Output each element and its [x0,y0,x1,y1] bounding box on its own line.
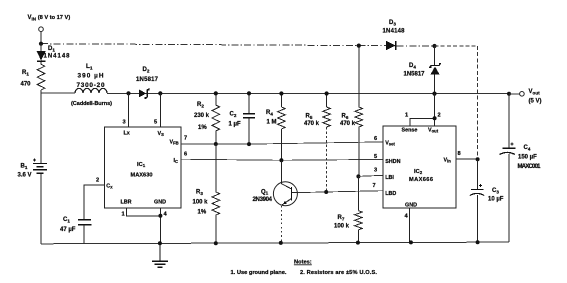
junction C3 at bus [476,240,480,244]
resistor R6 [340,46,363,177]
ground [152,243,168,267]
svg-text:R7: R7 [338,215,345,221]
svg-text:Cx: Cx [106,184,113,190]
svg-text:D3: D3 [389,20,396,26]
junction C2 top [247,91,251,95]
wire IC/SHDN line IC1 pin6 to IC2 pin5 [181,159,383,160]
svg-text:VS: VS [158,131,165,137]
junction LBR-GND [158,214,162,218]
resistor R7 [334,176,362,242]
svg-text:Vset: Vset [385,141,395,147]
svg-text:LBI: LBI [385,175,394,181]
svg-text:R3: R3 [196,190,203,196]
svg-text:R1: R1 [22,70,29,76]
junction C2 at VFB [247,142,251,146]
svg-text:2: 2 [438,113,441,119]
diode D1 [37,44,71,65]
diode D3 [383,20,406,50]
svg-text:D1: D1 [48,46,55,52]
svg-text:3: 3 [374,168,377,174]
svg-text:R5: R5 [306,114,313,120]
svg-text:MAX630: MAX630 [131,172,153,178]
svg-text:1: 1 [405,113,408,119]
svg-text:47 µF: 47 µF [60,227,76,233]
wire ground bus [41,242,509,244]
svg-text:(5 V): (5 V) [529,99,542,105]
svg-text:LBD: LBD [385,191,396,197]
svg-text:Vout: Vout [428,128,439,134]
svg-text:VFB: VFB [170,139,179,145]
svg-text:Vin: Vin [444,158,452,164]
svg-text:C3: C3 [492,188,499,194]
resistor R5 [304,94,330,192]
svg-text:5: 5 [154,120,157,126]
svg-text:IC: IC [174,158,179,164]
svg-text:7300-20: 7300-20 [77,82,105,89]
capacitor C4 [500,94,542,242]
svg-text:Q1: Q1 [261,189,269,195]
junction pin8 / C3 [476,157,480,161]
svg-text:2: 2 [96,178,99,184]
svg-text:470 k: 470 k [304,121,320,127]
svg-text:D4: D4 [409,63,416,69]
inductor L1 [71,63,112,107]
svg-text:R2: R2 [197,102,204,108]
svg-text:390 µH: 390 µH [78,73,104,80]
junction R3 at bus [214,241,218,245]
junction R4/Q1 base at SHDN line [279,158,283,162]
svg-text:150 µF: 150 µF [518,155,537,161]
junction node A [432,44,436,48]
capacitor C3 [470,159,504,242]
junction Q1 emitter at bus [279,241,283,245]
resistor R3 [193,144,220,243]
svg-text:5: 5 [374,154,377,160]
svg-text:MAXC001: MAXC001 [518,164,542,170]
svg-text:470 k: 470 k [340,121,356,127]
junction R5 top [325,91,329,95]
svg-text:(Caddell-Burns): (Caddell-Burns) [71,101,112,107]
wire IC1 pin1 LBR stub [126,208,160,216]
svg-text:1N4148: 1N4148 [44,54,71,60]
junction R2 top [214,91,218,95]
svg-text:1N5817: 1N5817 [404,72,426,78]
svg-text:3.6 V: 3.6 V [18,173,32,179]
svg-text:1%: 1% [198,210,207,216]
svg-text:GND: GND [154,200,166,206]
svg-text:6: 6 [374,136,377,142]
capacitor C1 [60,217,92,244]
svg-text:C1: C1 [63,217,70,223]
wire Q1 emitter dashed to bus [281,206,283,243]
svg-text:6: 6 [184,151,187,157]
diode D4 schottky [404,46,441,94]
wire IC2 pin1 Sense stub [410,119,435,127]
junction R6/R7 at LBI [356,174,360,178]
junction R6 at top rail [357,44,361,48]
svg-text:IC2: IC2 [414,169,423,175]
wire IC2 pin8 stub [456,158,478,160]
svg-text:3: 3 [123,120,126,126]
svg-text:7: 7 [373,183,376,189]
junction L1/Lx node [126,91,130,95]
resistor R2 [194,93,220,144]
wire main rail [41,92,509,95]
svg-text:R4: R4 [266,110,273,116]
svg-text:C2: C2 [230,112,237,118]
svg-text:Vout: Vout [529,89,541,95]
wire node A to IC2 Vin corner [435,45,478,47]
wire top dashed rail VIN to node A [41,44,435,46]
resistor R4 [266,94,285,160]
wire IC1 pin3 stub [128,93,130,127]
svg-text:7: 7 [184,136,187,142]
junction R4 top [279,91,283,95]
junction IC2 GND at bus [409,240,413,244]
svg-text:MAX666: MAX666 [409,177,433,183]
junction D2 cathode / VS node [158,91,162,95]
op-amp IC1 MAX630 box [104,127,181,208]
svg-text:1 µF: 1 µF [229,122,241,128]
transistor Q1 [253,160,298,206]
svg-text:1: 1 [122,211,125,217]
junction R2/R3 at VFB [214,142,218,146]
node VOUT terminal [509,89,542,105]
diode D2 schottky [136,67,159,99]
svg-text:Sense: Sense [402,128,418,134]
svg-text:IC1: IC1 [137,162,146,168]
junction VIN [39,42,43,46]
svg-text:230 k: 230 k [194,113,210,119]
svg-text:2. Resistors are ±5% U.O.S.: 2. Resistors are ±5% U.O.S. [300,270,377,276]
svg-text:GND: GND [405,203,417,209]
capacitor C2 [229,93,256,144]
svg-text:1N5817: 1N5817 [136,77,159,83]
svg-text:D2: D2 [143,67,150,73]
svg-text:Lx: Lx [124,130,130,136]
wire IC2 pin4 GND stub [408,208,410,242]
svg-text:100 k: 100 k [334,224,350,230]
notes [231,260,378,277]
junction C4 at main rail [507,92,511,96]
node VIN terminal [39,27,44,44]
wire LBI line to IC2 pin3 [358,175,382,176]
wire IC1 pin5 stub [159,93,161,126]
op-amp IC2 MAX666 box [383,126,456,209]
battery B1 [18,93,48,244]
svg-text:LBR: LBR [121,200,132,206]
junction R7 at bus [356,241,360,245]
svg-text:1%: 1% [198,125,207,131]
svg-text:2N3904: 2N3904 [253,197,273,203]
svg-text:1. Use ground plane.: 1. Use ground plane. [231,270,287,276]
junction IC1 GND at bus [158,241,162,245]
wire IC2 Vin vertical [477,46,479,159]
svg-text:10 µF: 10 µF [488,197,504,203]
svg-text:VIN (8 V to 17 V): VIN (8 V to 17 V) [28,15,71,21]
wire LBD line Q1 collector to IC2 pin7 [297,191,382,193]
wire VFB line IC1 pin7 to IC2 pin6 [181,142,383,144]
svg-text:8: 8 [458,151,461,157]
svg-text:1 M: 1 M [267,120,277,126]
svg-text:C4: C4 [524,145,531,151]
svg-text:1N4148: 1N4148 [383,29,406,35]
svg-text:100 k: 100 k [193,200,209,206]
svg-text:R6: R6 [342,114,349,120]
svg-text:SHDN: SHDN [385,159,400,165]
wire IC1 pin2 to C1 [84,185,104,220]
svg-text:B1: B1 [21,164,28,170]
junction D4 at main rail [432,92,436,96]
wire IC1 pin4 GND stub [159,208,161,244]
svg-text:470: 470 [21,82,32,88]
svg-text:Notes:: Notes: [294,260,312,266]
resistor R1 [21,64,45,93]
junction R5 at LBD line [324,190,328,194]
wire IC2 pin2 vertical [434,94,436,126]
junction Sense-Vout [433,116,437,120]
